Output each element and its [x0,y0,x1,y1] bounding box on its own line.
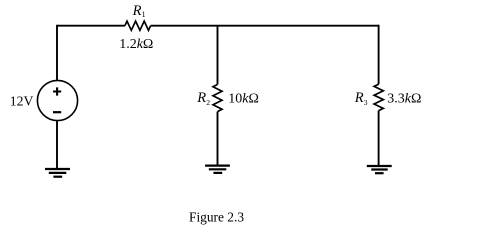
caption Figure 2.3 [189,209,244,224]
value 10kΩ [228,92,259,107]
svg-text:Figure 2.3: Figure 2.3 [189,209,244,224]
svg-text:3.3kΩ: 3.3kΩ [387,92,421,107]
svg-text:1.2kΩ: 1.2kΩ [119,37,153,52]
svg-text:1: 1 [142,10,146,19]
resistor R2 [213,84,222,111]
svg-text:R: R [132,3,142,19]
ground (source) [45,169,70,177]
svg-text:2: 2 [206,98,210,107]
label R2 [196,90,210,107]
resistor R1 [125,21,151,30]
ground (R3) [367,166,392,173]
label R3 [354,90,368,107]
wire R2 to ground [217,112,219,166]
resistor R3 [374,84,383,110]
wire source to ground [56,120,58,169]
wire R3 to ground [378,111,380,166]
label 12V [10,93,34,108]
svg-text:R: R [196,90,206,106]
value 1.2kΩ [119,37,153,52]
wire right vertical from top corner [378,25,380,84]
voltage source 12V [37,80,77,120]
svg-text:3: 3 [364,98,368,107]
value 3.3kΩ [387,92,421,107]
wire left vertical to source [56,25,58,80]
ground (R2) [205,166,230,173]
svg-text:12V: 12V [10,93,34,108]
svg-text:10kΩ: 10kΩ [228,92,259,107]
wire middle vertical from top node [217,26,219,85]
wire top-left segment [57,25,125,27]
wire top segment to right branch [151,25,379,27]
svg-text:R: R [354,90,364,106]
label R1 [132,3,146,19]
